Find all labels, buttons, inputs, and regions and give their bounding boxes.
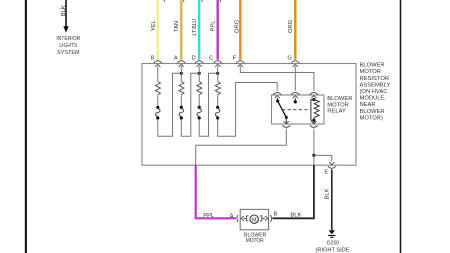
- svg-text:ORG: ORG: [235, 19, 241, 33]
- relay coil shunt: [311, 100, 314, 121]
- svg-text:A: A: [230, 213, 234, 219]
- svg-text:RESISTOR: RESISTOR: [360, 76, 390, 82]
- blower motor resistor assembly box: [142, 64, 356, 166]
- relay coil to exit wire: [313, 120, 315, 123]
- svg-text:B: B: [151, 55, 155, 61]
- resistor R4: [215, 82, 220, 95]
- thermal limiter F1: [156, 109, 161, 117]
- wire relay coil exit to junction: [313, 129, 315, 156]
- svg-text:YEL: YEL: [151, 19, 157, 31]
- svg-text:MOTOR: MOTOR: [360, 69, 381, 75]
- wire BLK to interior lights system: [65, 0, 67, 27]
- connector pin C: [214, 61, 222, 67]
- svg-text:INTERIOR: INTERIOR: [56, 36, 80, 42]
- wire junction down to motor (BLK): [313, 155, 315, 165]
- relay switch armature: [278, 101, 287, 117]
- svg-text:SYSTEM: SYSTEM: [57, 50, 80, 56]
- fuse F3 bottom node: [198, 116, 201, 119]
- svg-text:BLK: BLK: [324, 188, 330, 199]
- svg-text:BLOWER: BLOWER: [327, 96, 352, 102]
- relay NO contact stub: [294, 98, 296, 101]
- node D junction: [198, 72, 201, 75]
- svg-text:BLK: BLK: [61, 5, 67, 16]
- wire PPL (top): [216, 0, 218, 60]
- fuse F4 top node: [216, 106, 219, 109]
- panel divider left: [25, 0, 27, 253]
- relay switch fixed contact node: [276, 99, 279, 102]
- svg-text:PPL: PPL: [203, 213, 215, 219]
- wire ORG (G): [294, 0, 296, 60]
- motor brush bracket right: [260, 216, 262, 221]
- relay coil top node: [312, 98, 315, 101]
- relay coil: [314, 100, 319, 121]
- E connector arrow: [329, 162, 334, 165]
- relay connector entry 1: [273, 93, 281, 99]
- wire relay switch exit to PPL: [196, 129, 287, 166]
- wire R1 to fuse: [157, 95, 159, 106]
- wire G to relay: [294, 66, 296, 91]
- wire ORG (F): [239, 0, 241, 60]
- wire BLK to ground: [331, 169, 333, 230]
- svg-text:BLOWER: BLOWER: [360, 109, 385, 115]
- svg-text:B: B: [273, 212, 277, 218]
- resistor R3: [197, 82, 202, 95]
- fuse F2 top node: [180, 106, 183, 109]
- svg-text:G200: G200: [327, 241, 340, 247]
- svg-text:MOTOR): MOTOR): [360, 115, 383, 121]
- fuse F1 top node: [156, 106, 159, 109]
- blower motor relay box: [272, 95, 325, 124]
- svg-text:M: M: [252, 218, 257, 224]
- svg-text:LT BLU: LT BLU: [192, 19, 198, 36]
- wire PPL to blower motor: [196, 165, 236, 218]
- connector pin A: [177, 61, 185, 67]
- connector pin F: [236, 61, 244, 67]
- relay coil bottom node: [312, 119, 315, 122]
- connector pin D: [195, 61, 203, 67]
- wire branch A vertical: [180, 66, 182, 82]
- wire LT BLU: [198, 0, 200, 60]
- motor connector B (right): [262, 217, 265, 219]
- wire R4 to fuse: [217, 95, 219, 106]
- svg-text:C: C: [209, 55, 213, 61]
- svg-text:MODULE,: MODULE,: [360, 96, 387, 102]
- fuse F2 bottom node: [180, 116, 183, 119]
- connector pin B: [154, 61, 162, 67]
- wire YEL: [157, 0, 159, 60]
- wire R3 to fuse: [198, 95, 200, 106]
- wire branch C vertical: [217, 66, 219, 82]
- motor brush bracket left: [247, 216, 249, 221]
- blower motor box: [240, 209, 268, 229]
- wire branch B vertical: [157, 66, 159, 82]
- relay exit arrow right: [311, 121, 316, 124]
- svg-text:E: E: [324, 170, 328, 176]
- fuse F4 bottom node: [216, 116, 219, 119]
- splice arc on BLK wire: [59, 8, 65, 10]
- E connector cup: [328, 166, 336, 168]
- relay connector entry 3: [310, 93, 318, 99]
- resistor R2: [179, 82, 184, 95]
- svg-text:D: D: [192, 55, 196, 61]
- relay exit arrow left: [284, 121, 289, 124]
- wire TAN: [180, 0, 182, 60]
- svg-text:TAN: TAN: [174, 21, 180, 32]
- motor M circle: [250, 215, 258, 223]
- relay exit connector left: [282, 125, 290, 127]
- wire F to relay coil: [240, 66, 314, 91]
- wire junction to E connector: [314, 155, 332, 161]
- svg-text:(ON HVAC: (ON HVAC: [360, 89, 388, 95]
- svg-text:A: A: [174, 55, 178, 61]
- svg-text:PPL: PPL: [210, 20, 216, 32]
- relay switch stub entry1: [276, 98, 278, 100]
- thermal limiter F3: [197, 109, 202, 117]
- cut-off text ticks at top edge: [164, 0, 220, 2]
- svg-text:F: F: [233, 56, 237, 62]
- svg-text:G: G: [287, 56, 292, 62]
- thermal limiter F4: [215, 109, 220, 117]
- fuse F3 top node: [198, 106, 201, 109]
- junction node: [312, 154, 315, 157]
- relay switch to exit wire: [285, 117, 287, 123]
- svg-text:BLOWER: BLOWER: [360, 63, 385, 69]
- relay connector entry 2: [291, 93, 299, 99]
- svg-text:BLK: BLK: [290, 212, 301, 218]
- svg-text:ORG: ORG: [288, 19, 294, 33]
- relay exit connector right: [310, 125, 318, 127]
- svg-text:MOTOR: MOTOR: [327, 102, 348, 108]
- panel divider right: [400, 0, 402, 253]
- wire branch A lower + loop to D: [181, 73, 199, 136]
- arrowhead interior lights: [63, 26, 68, 32]
- wire branch D vertical: [198, 66, 200, 82]
- resistor R1: [155, 82, 160, 95]
- wire branch C lower loop to relay contact: [218, 83, 278, 137]
- connector pin G: [291, 61, 299, 67]
- wire branch D lower + loop to C: [199, 73, 218, 136]
- svg-text:NEAR: NEAR: [360, 102, 376, 108]
- fuse F1 bottom node: [156, 116, 159, 119]
- relay NO contact node: [294, 100, 297, 103]
- wire branch B lower + loop to A: [158, 73, 182, 136]
- svg-text:(RIGHT SIDE: (RIGHT SIDE: [316, 247, 350, 253]
- motor connector A (left): [237, 215, 238, 222]
- svg-text:RELAY: RELAY: [327, 109, 346, 115]
- thermal limiter F2: [179, 109, 184, 117]
- relay actuation dashed link: [282, 109, 311, 111]
- node C junction: [216, 72, 219, 75]
- ground G200 symbol: [329, 230, 336, 234]
- relay switch moving contact node: [285, 116, 288, 119]
- svg-text:ASSEMBLY: ASSEMBLY: [360, 82, 391, 88]
- svg-text:LIGHTS: LIGHTS: [59, 43, 77, 49]
- wire R2 to fuse: [180, 95, 182, 106]
- node A junction: [180, 72, 183, 75]
- svg-text:MOTOR: MOTOR: [246, 238, 264, 244]
